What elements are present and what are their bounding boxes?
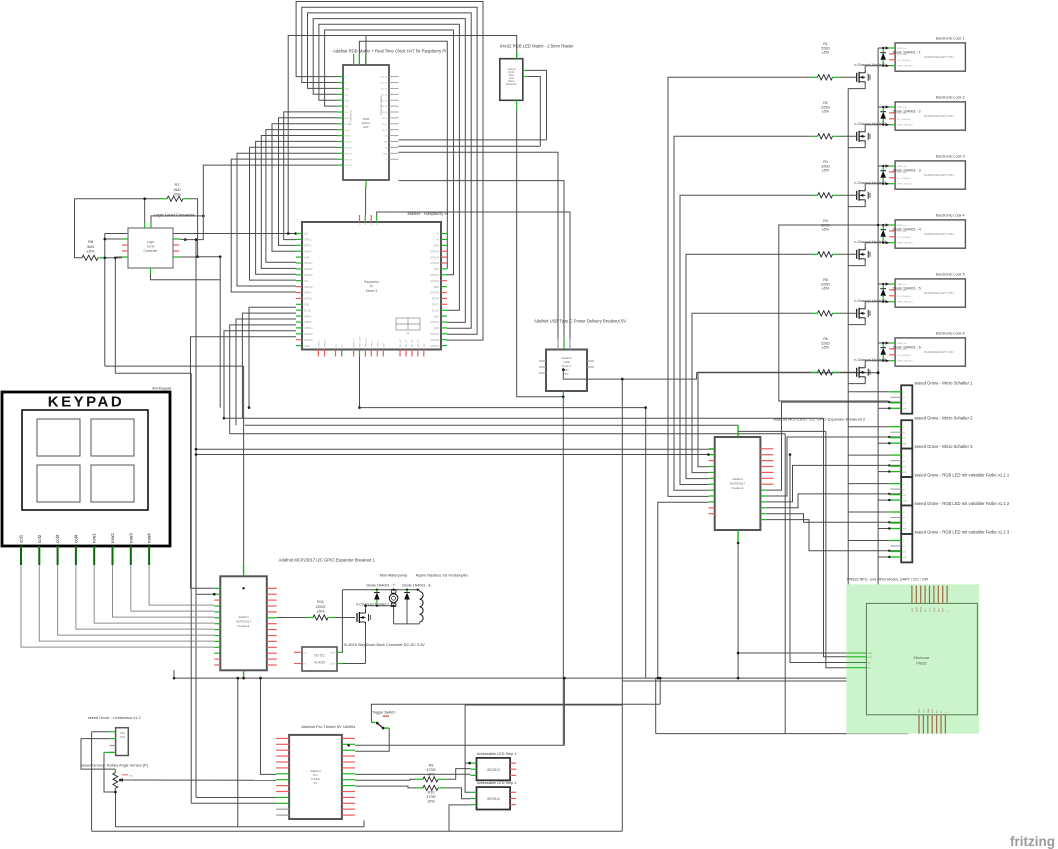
wire [272,124,337,252]
pin [148,546,150,565]
wire [342,589,417,591]
svg-text:GPIO10: GPIO10 [304,286,313,289]
grove module seeed Grove - Micro Schalter 1 [901,385,912,413]
junction [184,238,187,241]
svg-text:GPIO13: GPIO13 [304,327,313,330]
pin [276,796,289,798]
wire [686,254,811,478]
pin [889,165,895,167]
pin [890,460,901,462]
wire [840,194,857,196]
pin [296,256,302,258]
key button [91,419,134,456]
wire [341,651,344,653]
junction [562,368,565,371]
wire [359,41,447,268]
wire [230,325,296,434]
pin [889,59,895,61]
svg-text:GND: GND [934,607,936,612]
junction [888,556,890,558]
svg-text:NC: NC [902,518,906,520]
pin [364,215,366,222]
pin [276,749,289,751]
pin [110,738,116,740]
wire [766,514,901,523]
pin [539,366,546,368]
svg-text:GPIO17: GPIO17 [345,142,353,144]
resistor R8 [82,255,98,260]
display RGB LED matrix [500,59,523,101]
junction [888,442,890,444]
junction [882,124,884,126]
svg-text:col4: col4 [73,534,78,543]
svg-text:WS2812: WS2812 [487,768,500,772]
wire [848,144,865,148]
wire [266,130,337,263]
svg-text:DO_GND(blu): DO_GND(blu) [897,296,911,298]
wire [766,494,901,508]
junction [882,283,884,285]
pin [510,791,516,793]
pin [317,350,319,357]
wire [302,7,477,334]
pin [130,546,132,565]
svg-text:HAT: HAT [363,125,369,129]
svg-text:Converter: Converter [144,249,159,253]
junction [376,605,378,607]
svg-text:KEYPAD: KEYPAD [48,394,124,411]
pin [342,779,355,781]
svg-text:BAD63E3SECURITY MK1: BAD63E3SECURITY MK1 [924,292,954,295]
pin [760,507,766,509]
wire [878,165,889,167]
wire [659,678,661,704]
pin [889,230,895,232]
svg-text:SIG: SIG [902,552,906,554]
pin [510,798,516,800]
inductor heater coil [420,592,424,622]
pin [342,773,355,775]
svg-text:p5v: p5v [336,344,338,347]
svg-text:Diode 1N4001 - 8: Diode 1N4001 - 8 [402,584,430,588]
resistor R1 [818,75,833,80]
wire [288,36,517,234]
svg-text:UART_RX: UART_RX [364,338,367,348]
wire [878,499,889,501]
pin [405,350,407,357]
pin [760,466,773,468]
svg-text:In-: In- [304,662,307,666]
electronic lock 4 [895,220,965,248]
pin [889,236,895,238]
wire [784,434,786,734]
svg-text:seeed|Grove| - Rotary Angle Se: seeed|Grove| - Rotary Angle Sensor (P) [81,764,149,768]
svg-text:UART_TX: UART_TX [353,338,356,348]
junction [737,677,740,680]
wire [766,437,901,496]
junction [143,197,146,200]
wire [790,455,846,663]
wire [692,313,811,472]
wire [190,373,192,803]
pin [337,158,343,160]
svg-text:GND: GND [304,304,310,307]
pin [267,599,277,601]
wire [878,342,889,344]
wire [149,565,214,605]
pin [915,586,917,604]
pin [337,152,343,154]
svg-text:GPIO17: GPIO17 [304,262,313,265]
wire [237,153,337,286]
pin [335,350,337,357]
svg-text:DO_GND(blu): DO_GND(blu) [897,119,911,121]
pin [889,402,901,404]
wire [840,253,857,255]
svg-text:Toggle Switch: Toggle Switch [372,710,395,714]
pin [709,495,715,497]
wire [115,372,191,374]
pin [760,471,773,473]
pin [342,767,355,769]
svg-text:CAM: CAM [382,343,385,348]
pin [382,350,384,357]
pin [337,146,343,148]
pin [337,123,343,125]
electronic lock 3 [895,161,965,189]
pin [342,796,355,798]
svg-text:GPIO11: GPIO11 [304,298,313,301]
pin [342,802,355,804]
svg-text:row2: row2 [110,533,115,543]
wire [878,471,889,473]
wire [341,590,343,653]
svg-text:breakout: breakout [238,624,250,628]
wire [446,769,471,780]
pin [889,354,895,356]
junction [562,396,565,399]
svg-text:PN532: PN532 [916,662,926,666]
wire [242,313,296,418]
pin [889,551,901,553]
junction [195,448,198,451]
junction [294,232,297,235]
pin [441,268,447,270]
pin [539,372,546,374]
pin [337,111,343,113]
wire [319,24,460,310]
wire [865,125,889,129]
svg-text:5V: 5V [565,372,569,376]
pin [267,587,277,589]
svg-text:5v-PWR: 5v-PWR [371,217,373,225]
junction [119,779,122,782]
wire [196,448,715,450]
wire [824,418,847,657]
pin [389,87,399,89]
wire [465,704,622,706]
electronic lock 1 [895,43,965,71]
grove module seeed Grove - RGB LED mit variabler Farbe v1.1 2 [901,506,912,534]
grove module seeed Grove - RGB LED mit variabler Farbe v1.1 1 [901,477,912,505]
pin [214,587,220,589]
pin [337,129,343,131]
wire [446,788,471,799]
pin [337,135,343,137]
pin [760,513,766,515]
pin [889,289,895,291]
pin [441,280,447,282]
pin [889,348,895,350]
wire [449,805,471,831]
pin [441,244,447,246]
pin [214,658,220,660]
junction [886,300,889,303]
svg-text:Elechouse: Elechouse [914,656,930,660]
pin [110,745,116,747]
junction [114,257,117,260]
resistor R10 [423,785,438,790]
svg-text:M1_A: M1_A [382,111,388,114]
pin [337,87,343,89]
pin [173,256,179,258]
svg-text:Out+: Out+ [330,651,336,655]
svg-text:fritzing: fritzing [1010,834,1055,849]
pin [359,215,361,222]
pin [889,342,895,344]
svg-text:DC-DC: DC-DC [314,654,325,658]
pin [358,54,360,65]
grove module seeed Grove - Micro Schalter 2 [901,420,912,448]
svg-text:MCP23017: MCP23017 [236,620,251,624]
IC U3 Logic Level Converter [128,228,173,268]
wire [399,145,541,147]
pin [267,640,277,642]
grove module seeed Grove - RGB LED mit variabler Farbe v1.1 3 [901,534,912,562]
svg-text:GPIO6: GPIO6 [304,321,312,324]
pin [441,233,447,235]
pin [411,350,413,357]
pin [441,309,447,311]
transistor Q5 n-channel mosfet [856,309,858,318]
pin [38,546,40,565]
svg-text:470Ω: 470Ω [426,768,435,772]
pin [937,586,939,604]
svg-text:CLK: CLK [383,136,388,138]
wire [325,30,454,275]
junction [888,401,890,403]
wire [360,407,646,409]
pin [342,743,355,745]
wire [250,147,338,280]
pin [889,556,901,558]
wire [655,678,657,734]
wire [196,454,715,456]
pin [214,605,220,607]
junction [886,105,889,108]
wire [645,408,647,678]
svg-text:Electronic Lock 1: Electronic Lock 1 [936,37,965,41]
junction [882,242,884,244]
svg-text:Adressable LED Strip 2: Adressable LED Strip 2 [477,781,516,785]
pin [122,256,128,258]
wire [674,136,811,490]
svg-text:PWM0_1: PWM0_1 [318,338,320,347]
pin [889,426,901,428]
junction [886,241,889,244]
svg-text:NC: NC [902,489,906,491]
pin [389,152,399,154]
pin [75,546,77,565]
wire [622,680,878,682]
svg-text:VCC: VCC [868,657,873,659]
svg-text:SIG: SIG [902,523,906,525]
pin [890,396,901,398]
pin [337,141,343,143]
pin [214,623,220,625]
pin [441,297,447,299]
pin [709,448,715,450]
wire [365,187,367,215]
pin [709,466,715,468]
pin [276,802,289,804]
svg-text:GPIO14: GPIO14 [430,250,439,253]
svg-text:GPIO3: GPIO3 [304,245,312,248]
svg-text:M1_R1: M1_R1 [381,77,389,79]
wire [365,625,367,664]
wire [528,77,540,147]
pin [370,350,372,357]
pin [389,146,399,148]
pin [93,546,95,565]
svg-text:p3v: p3v [342,344,344,347]
pin [942,586,944,604]
wire [355,779,416,780]
transistor Q7 n-channel mosfet [356,613,358,622]
pin [110,731,116,733]
pin [243,564,245,576]
junction [888,550,890,552]
pin [122,250,128,252]
diode D5 1N4001 [880,288,886,290]
pin [353,350,355,357]
pin [276,785,289,787]
pin [760,495,766,497]
svg-text:SDA: SDA [345,88,350,91]
svg-text:GND: GND [902,557,907,559]
pin [389,123,399,125]
svg-text:M1_G2: M1_G2 [381,100,389,102]
svg-text:Electronic Lock 3: Electronic Lock 3 [936,155,965,159]
junction [882,342,884,344]
svg-text:GPIO24: GPIO24 [345,165,353,167]
pin [441,262,447,264]
wire [219,257,221,408]
pin [112,546,114,565]
wire [120,779,276,781]
svg-text:GPIO2: GPIO2 [304,239,312,242]
pin [471,768,477,770]
wire [249,307,296,407]
wire [359,357,361,408]
svg-text:M1_B: M1_B [382,118,388,120]
pin [341,350,343,357]
pin [929,586,931,604]
svg-text:Diode 1N4001 - 6: Diode 1N4001 - 6 [893,345,921,349]
svg-text:R10: R10 [428,790,435,794]
wire [878,442,889,444]
wire [766,402,901,490]
pin [294,651,302,653]
pin [709,460,715,462]
pin [276,743,289,745]
wire [878,283,889,285]
pin [389,93,399,95]
pin [889,483,901,485]
pin [214,664,220,666]
pin [267,623,277,625]
svg-text:Aspire Nautilus SS Verdampfer: Aspire Nautilus SS Verdampfer [416,574,469,578]
pin [709,454,715,456]
svg-text:GPIO27: GPIO27 [304,268,313,271]
pin [267,664,277,666]
electronic lock 5 [895,279,965,307]
svg-text:HDMI_1: HDMI_1 [371,339,373,347]
pin [846,656,866,658]
svg-text:Diode 1N4001 - 7: Diode 1N4001 - 7 [367,584,395,588]
transistor Q2 n-channel mosfet [856,132,858,141]
wire [91,732,93,832]
grove module seeed Grove - Micro Schalter 3 [901,449,912,477]
svg-text:Adafruit MCP23017 I2C GPIO Exp: Adafruit MCP23017 I2C GPIO Expander Brea… [773,417,866,422]
pin [342,755,355,757]
svg-text:GND: GND [919,708,921,713]
pin [296,244,302,246]
pin [587,366,594,368]
pin [920,586,922,604]
module PN532 NFC RFID board [846,584,979,733]
wire [114,258,116,373]
pin [376,215,378,222]
wire [81,738,110,740]
LED strip 2 WS2812 [477,787,511,809]
wire [877,48,879,681]
pin [389,76,399,78]
svg-text:GPIO7: GPIO7 [432,304,440,307]
wire [621,379,623,831]
svg-text:±5%: ±5% [822,110,830,114]
pin [516,100,518,110]
wire [779,225,889,401]
wire [75,199,83,258]
svg-text:5v-Pi: 5v-Pi [377,220,379,225]
junction [242,587,244,589]
pin [389,105,399,107]
svg-text:Electronic Lock 5: Electronic Lock 5 [936,273,965,277]
svg-text:±5%: ±5% [173,192,181,197]
junction [886,341,889,344]
wire [105,365,244,367]
svg-text:SIG: SIG [902,466,906,468]
pin [296,250,302,252]
pin [173,250,179,252]
svg-text:PWM0_2: PWM0_2 [325,338,327,347]
wire [840,312,857,314]
wire [406,600,408,624]
pin [370,215,372,222]
wire [355,728,389,751]
resistor R4 [818,252,833,257]
